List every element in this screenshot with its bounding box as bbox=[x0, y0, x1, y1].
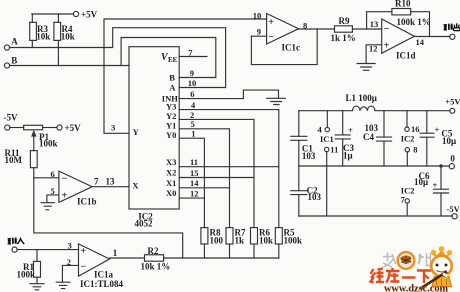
svg-text:B: B bbox=[169, 73, 175, 83]
watermark 我的芯片 logo bbox=[383, 252, 431, 269]
capacitor C4 bbox=[363, 111, 392, 166]
capacitor C2 bbox=[291, 166, 322, 216]
resistor R10 feedback bbox=[367, 0, 431, 36]
op-amp IC1b bbox=[51, 169, 116, 207]
svg-text:10k: 10k bbox=[36, 32, 50, 42]
capacitor C1 bbox=[291, 111, 316, 166]
resistor R4 bbox=[54, 14, 75, 66]
wire +5V top rail bbox=[299, 110, 450, 112]
svg-text:−: − bbox=[62, 173, 68, 184]
ground at R1 bbox=[30, 284, 44, 290]
node A input terminal bbox=[4, 36, 18, 50]
svg-text:Y3: Y3 bbox=[166, 101, 176, 111]
svg-text:+5V: +5V bbox=[81, 9, 98, 19]
svg-text:5: 5 bbox=[51, 186, 55, 196]
svg-text:IC1d: IC1d bbox=[396, 51, 416, 61]
svg-text:L1 100μ: L1 100μ bbox=[346, 93, 377, 103]
watermark mascot bbox=[421, 246, 453, 288]
svg-text:10μ: 10μ bbox=[414, 177, 428, 187]
op-amp IC1a bbox=[67, 241, 124, 289]
wire IC1c feedback bbox=[251, 29, 317, 65]
svg-text:X1: X1 bbox=[166, 178, 176, 188]
watermark 维库一下 text bbox=[371, 268, 432, 283]
svg-text:IC1c: IC1c bbox=[282, 43, 301, 53]
svg-text:1μ: 1μ bbox=[343, 151, 353, 161]
wire A to select pin 10 bbox=[9, 28, 225, 88]
resistor R2 bbox=[141, 246, 171, 272]
pin 8 of IC2 power bbox=[405, 145, 417, 166]
svg-text:9: 9 bbox=[190, 68, 194, 78]
svg-text:13: 13 bbox=[370, 19, 379, 29]
svg-text:4052: 4052 bbox=[135, 219, 154, 229]
resistor R9 bbox=[331, 16, 356, 43]
capacitor C3 bbox=[335, 111, 354, 166]
resistor R7 bbox=[226, 228, 246, 259]
op-amp IC1c bbox=[253, 11, 307, 53]
svg-text:X2: X2 bbox=[166, 168, 176, 178]
pin 7 stub VEE bbox=[179, 48, 207, 58]
svg-text:10μ: 10μ bbox=[442, 136, 456, 146]
svg-text:7: 7 bbox=[188, 48, 193, 58]
svg-text:12: 12 bbox=[190, 188, 199, 198]
svg-text:IC1: IC1 bbox=[320, 134, 334, 144]
ground at IC1d pin12 bbox=[357, 64, 375, 71]
svg-text:−: − bbox=[268, 32, 274, 43]
svg-text:Y0: Y0 bbox=[166, 130, 176, 140]
node +5V right terminal bbox=[445, 96, 460, 113]
svg-text:X0: X0 bbox=[166, 188, 176, 198]
node +5V mid-left terminal bbox=[57, 123, 81, 133]
wire X0 pin12 bbox=[179, 188, 204, 198]
svg-text:+: + bbox=[62, 190, 68, 201]
node B input terminal bbox=[4, 55, 17, 68]
wire P1 to +5V bbox=[43, 127, 58, 129]
pin 16 of IC2 power bbox=[405, 111, 420, 134]
wire IC1d output bbox=[414, 36, 450, 38]
svg-text:14: 14 bbox=[190, 178, 199, 188]
capacitor C6 bbox=[414, 164, 449, 216]
pin 4 of IC1 power bbox=[318, 111, 334, 145]
pin 11 of IC1 power bbox=[325, 144, 339, 216]
svg-text:EE: EE bbox=[168, 56, 178, 64]
wire IC1a pin2 input bbox=[62, 265, 78, 282]
svg-text:11: 11 bbox=[330, 144, 338, 154]
potentiometer P1 bbox=[24, 125, 58, 150]
svg-text:−: − bbox=[384, 24, 390, 35]
node 0 terminal bbox=[449, 154, 455, 169]
svg-text:16: 16 bbox=[411, 124, 420, 134]
wire IC1b output to X pin13 bbox=[92, 186, 129, 188]
svg-text:0: 0 bbox=[450, 154, 455, 164]
wire IC1b pin5 input bbox=[47, 195, 59, 203]
wire Y1 pin5 to R7 top bbox=[179, 119, 229, 227]
svg-text:103: 103 bbox=[308, 192, 322, 202]
wire B to select pin 9 bbox=[121, 38, 216, 78]
svg-text:10k 1%: 10k 1% bbox=[141, 262, 171, 272]
svg-text:10: 10 bbox=[253, 11, 261, 21]
resistor R1 bbox=[17, 250, 41, 284]
svg-text:10k: 10k bbox=[259, 236, 273, 246]
wire 0V mid rail bbox=[299, 165, 450, 167]
svg-text:10M: 10M bbox=[5, 155, 23, 165]
svg-text:+: + bbox=[433, 180, 438, 190]
svg-text:−: − bbox=[81, 262, 87, 273]
svg-text:14: 14 bbox=[416, 37, 425, 47]
resistor R5 bbox=[275, 228, 302, 259]
svg-text:R9: R9 bbox=[339, 16, 350, 26]
node -5V left terminal bbox=[4, 113, 18, 131]
svg-text:103: 103 bbox=[302, 151, 316, 161]
wire R9 to IC1d pin13 bbox=[352, 28, 381, 30]
svg-text:100k: 100k bbox=[39, 139, 58, 149]
svg-text:+: + bbox=[268, 17, 274, 28]
wire X2 pin15 bbox=[179, 168, 254, 178]
resistor R3 bbox=[30, 14, 51, 48]
node -5V right terminal bbox=[447, 204, 460, 219]
svg-text:Y: Y bbox=[133, 127, 139, 137]
svg-text:1: 1 bbox=[191, 129, 195, 139]
svg-text:C4: C4 bbox=[363, 132, 374, 142]
svg-text:11: 11 bbox=[190, 157, 198, 167]
capacitor C5 bbox=[420, 111, 456, 166]
pin 7 of IC2 power bbox=[401, 185, 415, 216]
svg-text:7: 7 bbox=[94, 177, 99, 187]
ground at INH bbox=[267, 98, 286, 104]
svg-text:10k: 10k bbox=[61, 32, 75, 42]
svg-text:+: + bbox=[384, 41, 390, 52]
svg-text:A: A bbox=[11, 36, 18, 46]
wire Y0 pin1 to R8 top bbox=[179, 129, 204, 228]
svg-text:+: + bbox=[81, 246, 87, 257]
svg-text:1k 1%: 1k 1% bbox=[331, 33, 356, 43]
node output terminal 输出 bbox=[444, 23, 460, 39]
svg-text:+5V: +5V bbox=[445, 96, 460, 106]
svg-text:100: 100 bbox=[210, 236, 224, 246]
wire IC1b pin6 input bbox=[34, 177, 59, 179]
wire feedback IC1b to R2 node bbox=[34, 178, 183, 258]
svg-text:+: + bbox=[435, 124, 440, 134]
wire Y pin3 to IC1c input bbox=[104, 19, 267, 133]
svg-text:IC1b: IC1b bbox=[77, 197, 97, 207]
svg-text:www.dzsc.com: www.dzsc.com bbox=[384, 284, 448, 292]
svg-text:IC2: IC2 bbox=[401, 134, 415, 144]
svg-text:3: 3 bbox=[111, 122, 115, 132]
svg-text:8: 8 bbox=[413, 145, 417, 155]
svg-text:100k: 100k bbox=[284, 236, 303, 246]
wire X1 pin14 bbox=[179, 178, 229, 188]
svg-text:1: 1 bbox=[113, 248, 118, 258]
svg-text:X3: X3 bbox=[166, 157, 176, 167]
svg-text:IC1:TL084: IC1:TL084 bbox=[80, 279, 124, 289]
svg-text:R2: R2 bbox=[148, 246, 159, 256]
wire INH pin6 to ground bbox=[179, 90, 278, 99]
svg-text:+: + bbox=[348, 125, 353, 135]
node +5V top-left terminal bbox=[73, 9, 97, 19]
multiplexer IC2 4052 bbox=[129, 47, 179, 229]
svg-text:6: 6 bbox=[190, 89, 194, 99]
op-amp IC1d bbox=[369, 19, 425, 61]
svg-text:A: A bbox=[169, 83, 176, 93]
wire B horizontal bbox=[9, 65, 129, 67]
resistor R8 bbox=[201, 228, 224, 259]
svg-text:+5V: +5V bbox=[65, 123, 82, 133]
svg-text:-5V: -5V bbox=[4, 113, 18, 123]
inductor L1 bbox=[346, 93, 377, 111]
svg-text:100k: 100k bbox=[17, 270, 36, 280]
wire IC1a output bbox=[110, 257, 145, 259]
node input terminal 输入 bbox=[8, 238, 25, 253]
wire R2 to ladder rail bbox=[164, 257, 279, 259]
svg-text:15: 15 bbox=[190, 168, 199, 178]
resistor R6 bbox=[251, 228, 274, 259]
resistor R11 bbox=[5, 148, 38, 178]
ground at IC1b pin5 bbox=[41, 203, 54, 210]
wire Y3 pin4 to R5 top bbox=[179, 100, 279, 228]
svg-text:10: 10 bbox=[188, 78, 197, 88]
svg-text:R10: R10 bbox=[395, 0, 411, 9]
ground at IC1a pin2 bbox=[56, 282, 70, 288]
wire X3 pin11 bbox=[179, 157, 279, 167]
wire IC1d pin12 input bbox=[366, 45, 382, 64]
svg-text:-5V: -5V bbox=[447, 204, 460, 214]
wire Y2 pin2 to R6 top bbox=[179, 110, 254, 228]
wire input to IC1a pin3 bbox=[17, 249, 79, 251]
svg-text:100k 1%: 100k 1% bbox=[397, 17, 431, 27]
wire IC1c pin9 input bbox=[251, 35, 266, 37]
wire -5V to P1 bbox=[10, 127, 24, 129]
wire IC1c output bbox=[299, 28, 335, 30]
svg-text:13: 13 bbox=[106, 177, 116, 187]
svg-text:X: X bbox=[132, 180, 139, 190]
svg-text:1k: 1k bbox=[235, 236, 245, 246]
wire -5V bottom rail bbox=[299, 215, 452, 217]
wire +5V rail to R3 R4 bbox=[32, 13, 74, 15]
svg-text:9: 9 bbox=[257, 27, 261, 37]
svg-text:B: B bbox=[11, 55, 17, 65]
svg-text:3: 3 bbox=[68, 241, 72, 251]
